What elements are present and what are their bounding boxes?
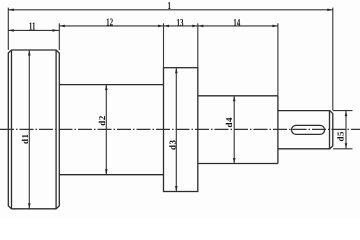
svg-text:d5: d5: [336, 131, 346, 142]
svg-text:13: 13: [177, 18, 184, 29]
svg-text:14: 14: [233, 18, 240, 29]
svg-text:12: 12: [106, 18, 113, 29]
svg-text:d1: d1: [20, 133, 30, 144]
svg-text:d2: d2: [97, 115, 107, 126]
svg-text:11: 11: [29, 21, 36, 32]
svg-text:1: 1: [168, 1, 171, 12]
svg-text:d3: d3: [167, 139, 177, 150]
svg-text:d4: d4: [224, 117, 234, 128]
